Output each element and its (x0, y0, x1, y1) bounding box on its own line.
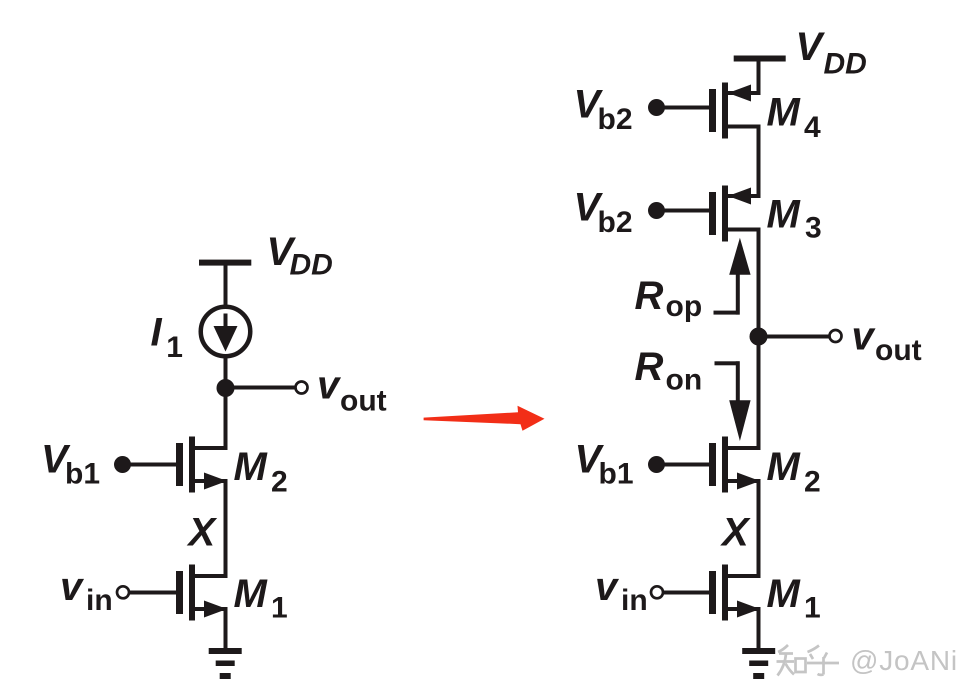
wire vin to M1 gate (left) (128, 591, 176, 595)
label M_3 (right) (767, 193, 822, 245)
wire M3 drain to output node to M2 drain (right) (757, 229, 761, 450)
label M_1 (right) (767, 572, 821, 625)
label M_2 (right) (767, 445, 821, 499)
node: Vb1 bias dot (left) (114, 456, 131, 473)
wire M1 source to ground (left) (224, 609, 228, 651)
VDD rail (right) (734, 56, 786, 62)
wire vin to M1 gate (right) (662, 591, 709, 595)
svg-text:out: out (875, 334, 922, 367)
svg-text:1: 1 (804, 592, 821, 625)
label I_1 (151, 311, 183, 365)
node: output junction dot (right) (750, 328, 768, 346)
svg-text:M: M (767, 572, 802, 616)
ground (right) (742, 648, 775, 679)
wire output node to M2 drain (left) (224, 388, 228, 450)
svg-text:3: 3 (805, 212, 822, 245)
svg-text:2: 2 (271, 466, 288, 499)
svg-text:b1: b1 (65, 458, 100, 491)
wire VDD rail to current source I1 (left) (224, 265, 228, 307)
svg-text:b2: b2 (598, 103, 633, 136)
wire VDD rail to M4 source (right) (757, 61, 761, 94)
svg-text:v: v (317, 364, 342, 408)
wire Vb1 to M2 gate (left) (122, 463, 176, 467)
label R_op (635, 274, 703, 323)
svg-text:1: 1 (271, 592, 288, 625)
svg-text:b1: b1 (599, 458, 634, 491)
svg-text:M: M (234, 445, 269, 489)
transistor M4 (right, PMOS) (709, 83, 761, 139)
svg-text:out: out (340, 385, 387, 418)
svg-text:DD: DD (824, 48, 867, 81)
svg-text:M: M (767, 193, 802, 237)
node: Vb2 bias dot for M3 (right) (648, 202, 665, 219)
label v_in (right) (595, 565, 648, 617)
wire output node to vout terminal (right) (759, 335, 830, 339)
svg-text:v: v (595, 565, 620, 609)
svg-text:in: in (621, 584, 648, 617)
red transformation arrow (424, 406, 545, 431)
terminal: vout open circle (right) (830, 330, 842, 342)
svg-text:M: M (767, 91, 802, 135)
label v_out (right) (852, 315, 922, 368)
svg-text:1: 1 (166, 331, 183, 364)
VDD rail (left) (199, 260, 251, 266)
svg-text:V: V (796, 25, 826, 69)
label V_b2 (upper, right) (574, 83, 633, 137)
label V_b1 (left) (41, 438, 100, 491)
label M_1 (left) (234, 572, 288, 625)
svg-text:DD: DD (290, 249, 333, 282)
label V_DD (right) (796, 25, 867, 81)
svg-text:b2: b2 (598, 206, 633, 239)
wire Vb2 to M3 gate (right) (657, 209, 710, 213)
svg-text:2: 2 (804, 466, 821, 499)
svg-text:on: on (666, 364, 703, 397)
svg-text:R: R (635, 345, 664, 389)
svg-text:R: R (635, 274, 664, 318)
wire Vb1 to M2 gate (right) (657, 463, 710, 467)
label V_DD (left) (267, 230, 333, 282)
svg-text:X: X (187, 511, 218, 555)
transistor M1 (left, NMOS input) (176, 565, 228, 621)
label M_2 (left) (234, 445, 288, 499)
wire M2 source to M1 drain (right) (757, 481, 761, 578)
watermark 知乎 @JoANi (777, 645, 840, 676)
transistor M3 (right, PMOS cascode) (709, 186, 761, 242)
svg-text:M: M (767, 445, 802, 489)
wire Vb2 to M4 gate (right) (657, 106, 710, 110)
current source I1 (left) (201, 307, 251, 357)
transistor M2 (left, NMOS cascode) (176, 437, 228, 493)
terminal: vout open circle (left) (296, 382, 308, 394)
svg-text:M: M (234, 572, 269, 616)
transistor M2 (right, NMOS cascode) (709, 437, 761, 493)
label M_4 (right) (767, 91, 822, 145)
label v_in (left) (60, 565, 113, 617)
label V_b2 (lower, right) (574, 186, 633, 240)
wire M1 source to ground (right) (757, 609, 761, 651)
transistor M1 (right, NMOS input) (709, 565, 761, 621)
label v_out (left) (317, 364, 387, 418)
svg-text:op: op (666, 290, 703, 323)
terminal: vin open circle (left) (117, 586, 129, 598)
svg-text:X: X (720, 511, 751, 555)
svg-text:v: v (852, 315, 877, 359)
svg-text:I: I (151, 311, 163, 355)
svg-text:@JoANi: @JoANi (850, 645, 958, 676)
wire output node to vout terminal (left) (226, 386, 296, 390)
terminal: vin open circle (right) (651, 586, 663, 598)
node: Vb2 bias dot for M4 (right) (648, 99, 665, 116)
node: Vb1 bias dot (right) (648, 456, 665, 473)
Ron arrow (looking down into M2) (715, 361, 751, 441)
svg-text:in: in (86, 584, 113, 617)
label V_b1 (right) (575, 438, 634, 491)
Rop arrow (looking up into M3) (714, 238, 751, 315)
wire current source to output node (left) (224, 356, 228, 390)
svg-text:4: 4 (804, 111, 821, 144)
wire M4 drain to M3 source (right) (757, 126, 761, 196)
svg-text:v: v (60, 565, 85, 609)
node: output junction dot (left) (217, 379, 235, 397)
label R_on (635, 345, 703, 397)
wire M2 source to M1 drain (left) (224, 481, 228, 578)
ground (left) (209, 648, 242, 679)
